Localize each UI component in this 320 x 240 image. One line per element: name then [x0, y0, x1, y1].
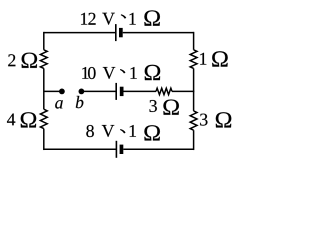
resistor R1 1ohm zigzag [190, 50, 197, 69]
label node b [76, 96, 84, 108]
battery B1 12V long plate [115, 24, 117, 41]
wire middle (node b to battery B2) [81, 90, 116, 92]
wire middle-left (left wire to node a) [44, 90, 62, 92]
wire left middle (R2 to R4) [43, 68, 45, 109]
resistor R4 4ohm zigzag [40, 109, 47, 128]
wire right lower (R3 to bottom-right corner) [193, 130, 195, 150]
label 12V source value [81, 10, 160, 25]
wire left upper (top-left corner down to resistor R2) [43, 32, 45, 50]
wire right upper (top-right corner down to resistor R1) [193, 32, 195, 50]
battery B2 10V short thick plate [120, 87, 124, 96]
wire right middle (R1 to R3) [193, 68, 195, 111]
ideographic comma in 8V label [120, 129, 126, 133]
resistor R3 3ohm right zigzag [190, 111, 197, 130]
wire left lower (R4 to bottom-left corner) [43, 129, 45, 150]
battery B3 8V long plate [115, 141, 117, 158]
wire middle-right (R5 to right wire) [172, 90, 194, 92]
label node a [55, 100, 63, 108]
wire bottom-left (bottom-left corner to battery B3) [44, 148, 117, 150]
ideographic comma in 12V label [121, 14, 127, 18]
battery B1 12V short thick plate [119, 28, 123, 37]
label 3 ohm middle [150, 100, 179, 115]
battery B2 10V long plate [115, 83, 117, 100]
resistor R2 2ohm zigzag [40, 50, 47, 69]
wire middle (battery B2 to resistor R5) [124, 90, 157, 92]
wire top-left (top-left corner to battery B1) [44, 32, 116, 34]
resistor R5 3ohm middle zigzag [156, 88, 172, 94]
label 10V source value [82, 65, 160, 80]
node b terminal dot [79, 89, 85, 95]
ideographic comma in 10V label [120, 69, 126, 73]
label 1 ohm [200, 51, 228, 66]
node a terminal dot [59, 89, 65, 95]
label 2 ohm [8, 53, 37, 68]
label 4 ohm [7, 112, 36, 127]
wire bottom-right (battery B3 to bottom-right corner) [123, 148, 193, 150]
label 8V source value [86, 125, 160, 141]
label 3 ohm right [200, 112, 231, 127]
wire top-right (battery B1 to top-right corner) [123, 32, 194, 34]
battery B3 8V short thick plate [120, 145, 124, 154]
